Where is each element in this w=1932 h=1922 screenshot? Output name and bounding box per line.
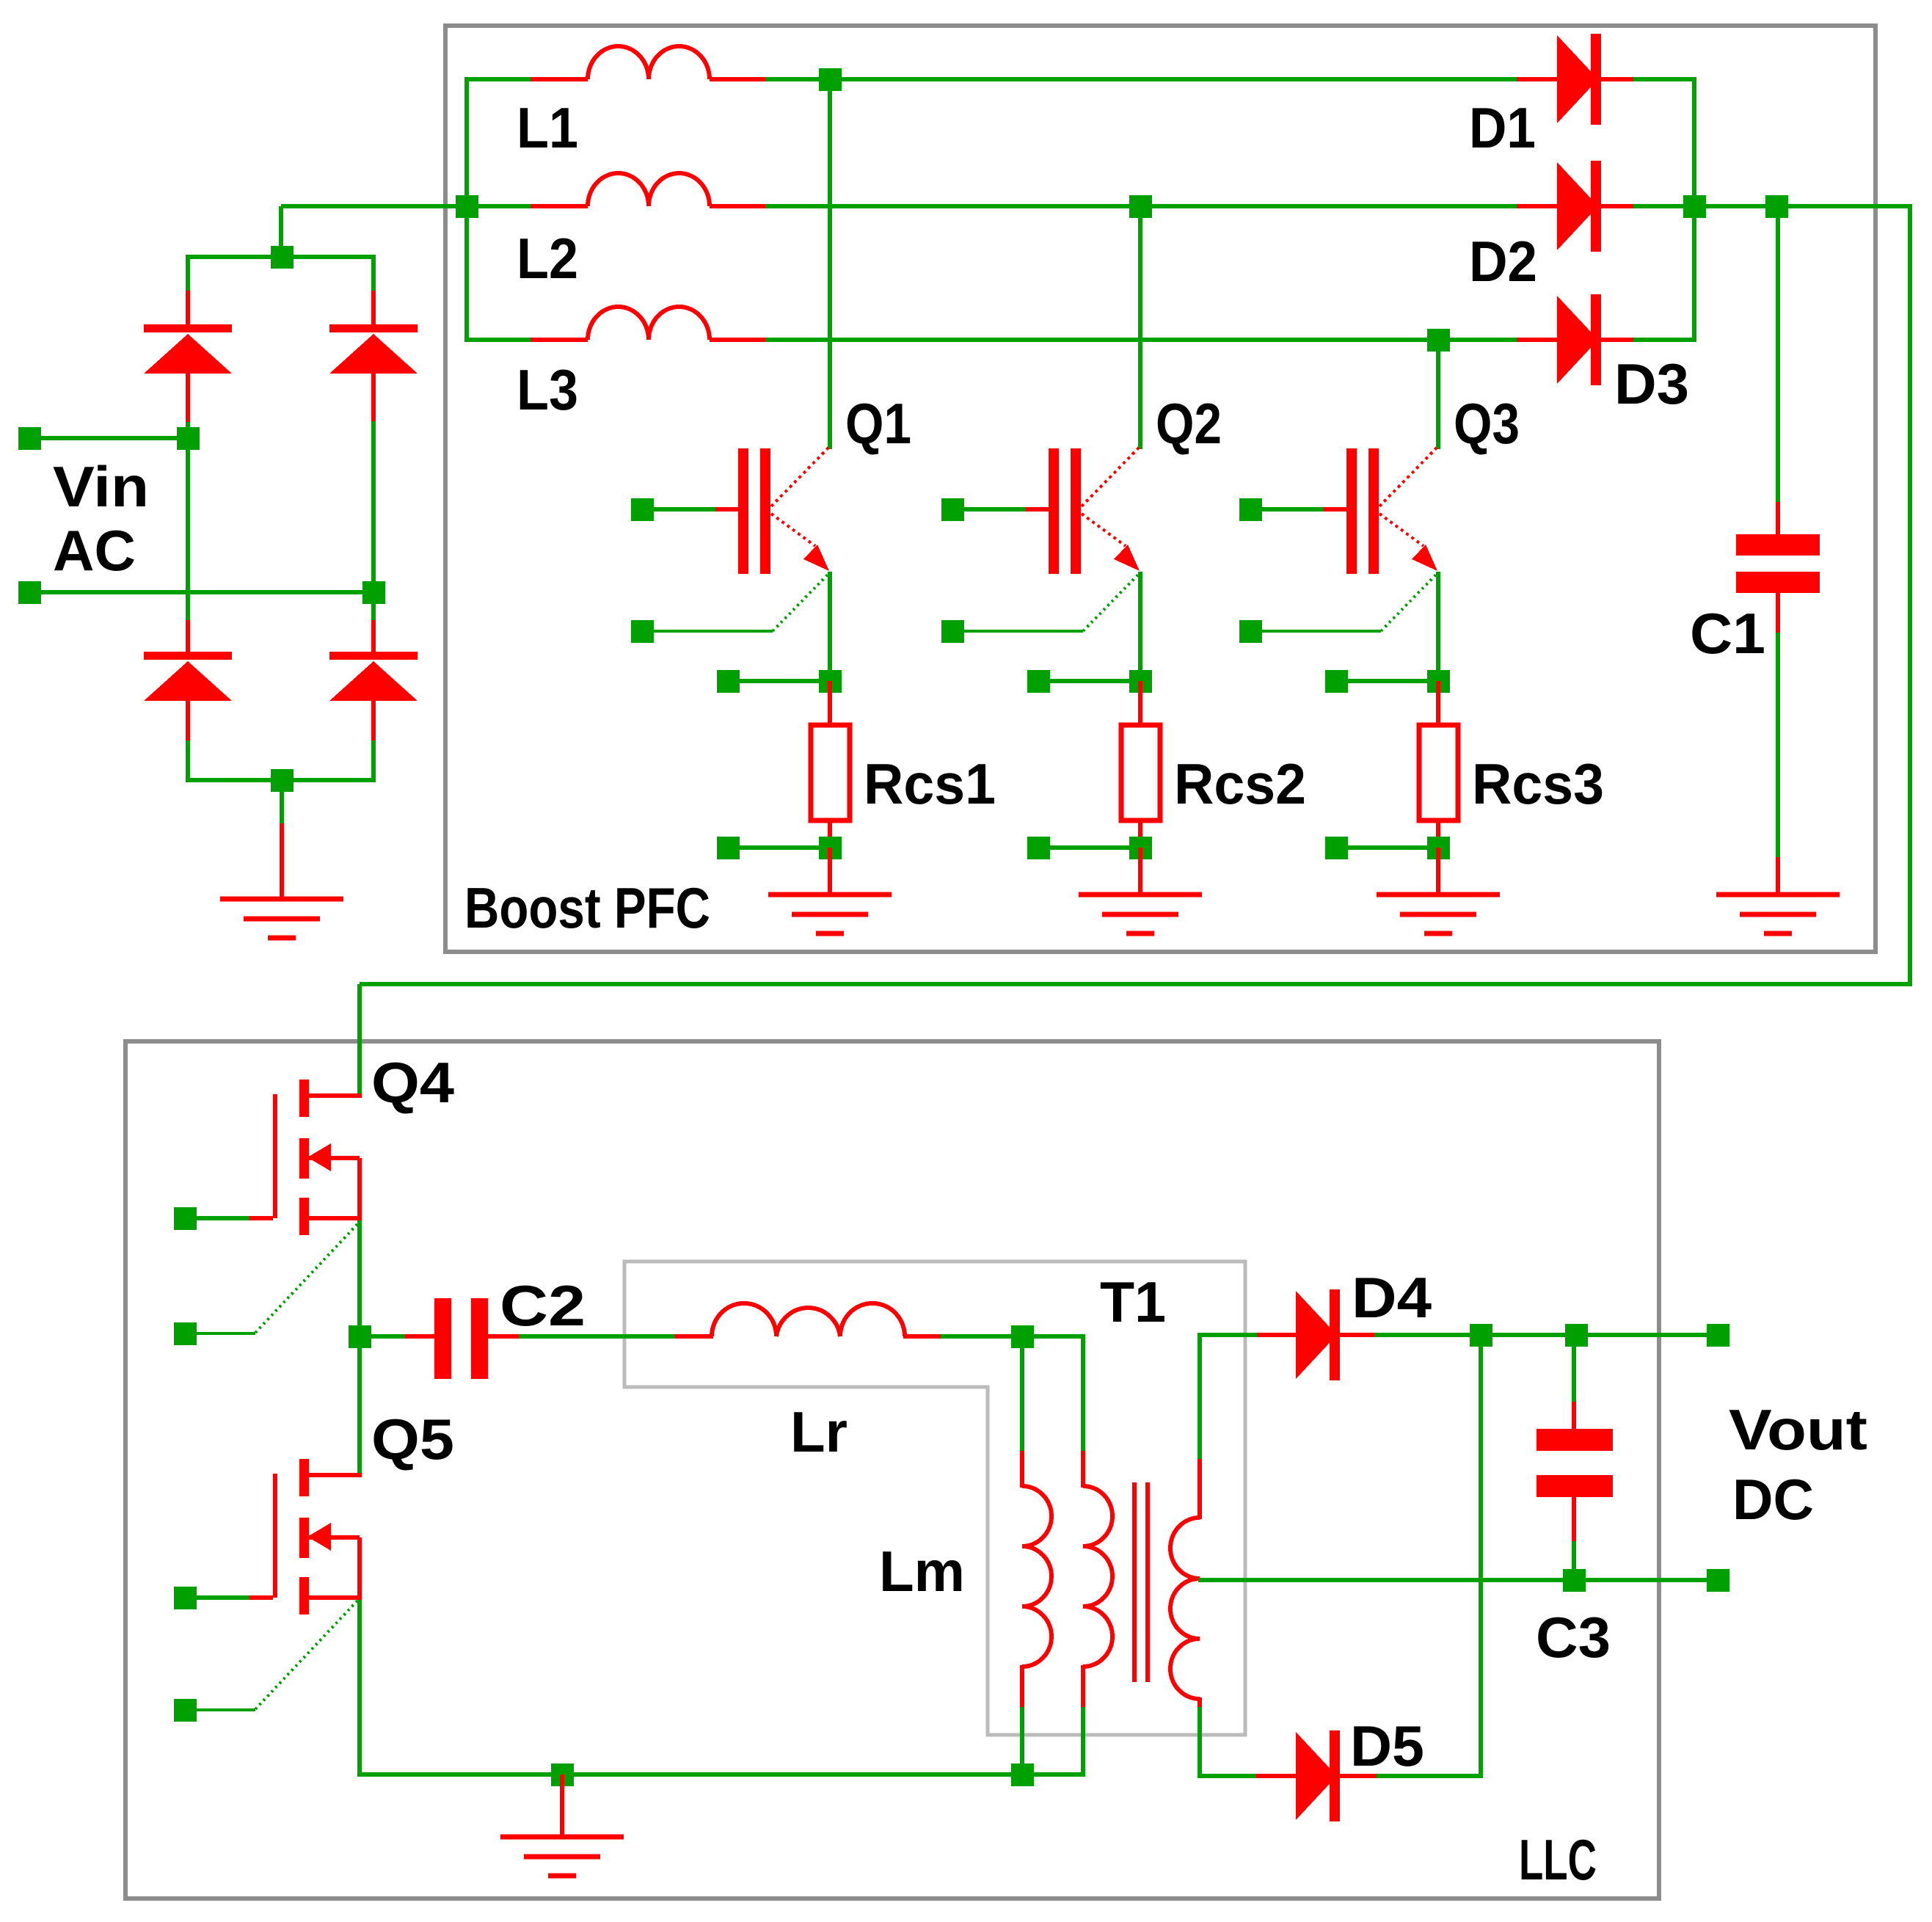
- svg-text:Boost PFC: Boost PFC: [464, 876, 710, 940]
- terminal Rcs2 sense bottom: [1027, 837, 1050, 859]
- node diode bus junction: [1683, 195, 1706, 218]
- wire secondary to D4: [1200, 1333, 1297, 1337]
- label Boost PFC: [464, 876, 710, 940]
- svg-text:Rcs3: Rcs3: [1472, 751, 1604, 816]
- wire D1 anode lead: [1517, 77, 1559, 81]
- label Rcs3: [1472, 751, 1604, 816]
- inductor Lr: [712, 1303, 905, 1336]
- transistor Q5 body lead: [308, 1537, 360, 1599]
- transistor Q4 body lead: [308, 1158, 360, 1220]
- wire C1 top lead: [1776, 206, 1780, 536]
- node LLC ground junction: [551, 1763, 574, 1786]
- wire L1 to collector junction: [710, 77, 1519, 81]
- transistor Q5 channel bars: [299, 1459, 309, 1615]
- node bridge top junction: [271, 246, 294, 269]
- capacitor C2: [434, 1298, 488, 1379]
- svg-text:Q4: Q4: [371, 1050, 454, 1115]
- transistor Q2 emitter arrow: [1114, 545, 1140, 571]
- label AC: [53, 518, 136, 583]
- svg-text:D3: D3: [1614, 352, 1689, 416]
- diode D1: [1557, 34, 1601, 125]
- diode D5: [1296, 1730, 1340, 1821]
- wire Rcs2 sense bottom: [1048, 845, 1140, 850]
- inductor L3: [588, 307, 710, 340]
- label Vin: [53, 454, 149, 519]
- inductor Lm: [1022, 1486, 1051, 1667]
- svg-text:Q5: Q5: [371, 1407, 454, 1471]
- label Q2: [1156, 391, 1222, 456]
- wire C2 right lead: [487, 1334, 679, 1339]
- inductor L1: [588, 46, 710, 79]
- wire bridge output to PFC: [281, 204, 470, 208]
- node resonant junction: [1011, 1325, 1034, 1348]
- wire D2 cathode lead: [1601, 204, 1696, 208]
- wire LLC bottom rail: [360, 1772, 1085, 1777]
- wire D1 cathode lead: [1601, 77, 1696, 81]
- wire PFC to LLC bus: [360, 982, 1912, 986]
- transistor Q1 emitter arrow: [803, 545, 829, 571]
- transistor Q3 emitter diagonal: [1379, 514, 1424, 546]
- label DC: [1732, 1467, 1814, 1532]
- wire L1 left lead: [466, 77, 588, 81]
- svg-text:C2: C2: [500, 1273, 586, 1338]
- wire D3 anode lead: [1517, 338, 1559, 342]
- wire bridge right mid lead: [371, 374, 376, 594]
- label L2: [517, 226, 578, 291]
- LLC stage frame box: [125, 1041, 1659, 1899]
- Boost PFC stage frame box: [445, 26, 1876, 952]
- wire Q5 source: [357, 1600, 362, 1777]
- wire Q2 emitter sense: [963, 574, 1139, 631]
- svg-text:L2: L2: [517, 226, 578, 291]
- wire Q4 source sense: [196, 1222, 360, 1333]
- wire Q3 collector: [1436, 340, 1440, 449]
- wire C3 bottom lead: [1572, 1497, 1576, 1582]
- terminal Q3 gate: [1239, 498, 1262, 521]
- label Lr: [790, 1399, 847, 1464]
- svg-text:C1: C1: [1690, 601, 1765, 666]
- wire Rcs1 bottom lead: [828, 820, 832, 849]
- node Q2 emitter junction: [1129, 670, 1152, 693]
- wire bridge riser: [279, 206, 283, 259]
- diode D3: [1557, 294, 1601, 385]
- node C1 top junction: [1765, 195, 1788, 218]
- label D2: [1469, 229, 1537, 294]
- label T1: [1100, 1270, 1166, 1334]
- svg-text:Rcs1: Rcs1: [864, 751, 996, 816]
- node C3 top junction: [1565, 1324, 1588, 1347]
- terminal Q1 emitter sense: [631, 620, 654, 643]
- wire bridge left bottom lead: [186, 701, 190, 782]
- label Lm: [879, 1539, 965, 1604]
- wire Q3 ground lead: [1436, 848, 1440, 897]
- transistor Q1 emitter diagonal: [771, 514, 815, 546]
- wire PFC input vertical: [464, 77, 469, 342]
- wire Rcs2 sense top: [1048, 679, 1140, 683]
- ground Q1: [768, 895, 892, 933]
- label Q4: [371, 1050, 454, 1115]
- wire Q3 gate lead: [1261, 507, 1346, 512]
- wire secondary tap rail: [1198, 1578, 1709, 1582]
- transistor Q5 gate line: [273, 1474, 277, 1598]
- wire bridge top rail: [188, 255, 373, 259]
- label Rcs2: [1174, 751, 1306, 816]
- wire Q4 source lead: [308, 1216, 362, 1220]
- diode bridge D-C: [144, 652, 232, 701]
- wire Q5 source lead: [308, 1595, 362, 1600]
- svg-text:Rcs2: Rcs2: [1174, 751, 1306, 816]
- terminal Q5 gate: [174, 1587, 197, 1609]
- ground C1: [1716, 895, 1840, 933]
- transistor Q2 collector diagonal: [1082, 446, 1140, 506]
- wire Q1 ground lead: [828, 848, 832, 897]
- wire D1 cathode drop: [1692, 77, 1696, 208]
- svg-text:DC: DC: [1732, 1467, 1814, 1532]
- transistor Q3 gate bar: [1346, 448, 1357, 574]
- wire Q4 drain drop: [357, 984, 362, 1093]
- label D3: [1614, 352, 1689, 416]
- transistor Q1 gate bar: [738, 448, 748, 574]
- wire PFC output rail: [1694, 204, 1912, 208]
- ground bridge: [220, 899, 343, 938]
- diode D2: [1557, 161, 1601, 252]
- transistor Q3 body bar: [1368, 448, 1379, 574]
- wire Rcs2 top lead: [1138, 681, 1142, 727]
- wire Q5 drain: [357, 1336, 362, 1473]
- terminal Q3 emitter sense: [1239, 620, 1262, 643]
- wire T1 secondary bottom lead: [1198, 1697, 1202, 1778]
- wire PFC output down: [1908, 204, 1912, 986]
- label L3: [517, 357, 578, 422]
- transistor Q3 emitter arrow: [1412, 545, 1437, 571]
- wire Rcs1 top lead: [828, 681, 832, 727]
- wire T1 primary bottom lead: [1081, 1665, 1085, 1777]
- wire Rcs3 bottom lead: [1436, 820, 1440, 849]
- node Rcs3 bottom junction: [1427, 837, 1450, 859]
- resistor Rcs1: [811, 725, 850, 820]
- wire Rcs1 sense top: [737, 679, 830, 683]
- label L1: [517, 95, 578, 160]
- transistor Q3 collector diagonal: [1379, 446, 1438, 506]
- wire Vin phase to bridge: [40, 436, 188, 440]
- wire Q1 emitter sense: [653, 574, 828, 631]
- svg-text:L3: L3: [517, 357, 578, 422]
- label Rcs1: [864, 751, 996, 816]
- svg-text:AC: AC: [53, 518, 136, 583]
- ground Q3: [1377, 895, 1500, 933]
- wire Lm top lead: [1020, 1336, 1024, 1488]
- wire Q2 emitter: [1138, 572, 1142, 683]
- wire Q4 source: [357, 1220, 362, 1339]
- node Rcs1 bottom junction: [819, 837, 842, 859]
- transistor Q4 channel bars: [299, 1080, 309, 1235]
- terminal Q5 source sense: [174, 1699, 197, 1722]
- terminal Vout positive: [1707, 1324, 1729, 1347]
- wire Q5 source sense: [196, 1598, 360, 1710]
- wire L3 left lead: [466, 338, 588, 342]
- wire Q4 gate wire: [196, 1216, 273, 1220]
- terminal Vout negative: [1707, 1569, 1729, 1592]
- inductor L2: [588, 173, 710, 206]
- wire Rcs3 sense bottom: [1346, 845, 1438, 850]
- label LLC: [1519, 1827, 1597, 1892]
- wire Lr right lead: [903, 1334, 1085, 1339]
- resistor Rcs3: [1419, 725, 1458, 820]
- wire Lr left lead: [675, 1334, 713, 1339]
- wire L2 left lead: [466, 204, 588, 208]
- label D4: [1352, 1265, 1432, 1330]
- wire bridge right lower lead: [371, 592, 376, 653]
- wire Q2 gate lead: [963, 507, 1049, 512]
- svg-text:D5: D5: [1350, 1714, 1424, 1778]
- capacitor C3: [1537, 1429, 1613, 1497]
- svg-text:Vout: Vout: [1729, 1397, 1867, 1462]
- label D1: [1469, 95, 1536, 160]
- wire bridge left mid lead: [186, 374, 190, 441]
- wire T1 primary top lead: [1081, 1334, 1085, 1488]
- svg-text:Q1: Q1: [845, 391, 911, 456]
- wire Q2 ground lead: [1138, 848, 1142, 897]
- wire D5 to output riser: [1479, 1335, 1483, 1776]
- label C2: [500, 1273, 586, 1338]
- wire D5 cathode: [1340, 1774, 1483, 1778]
- coil T1 secondary lower: [1170, 1579, 1200, 1699]
- wire Rcs1 sense bottom: [737, 845, 830, 850]
- node L3 collector junction: [1427, 329, 1450, 352]
- node half-bridge junction: [349, 1325, 371, 1348]
- transistor Q1 collector diagonal: [771, 446, 830, 506]
- wire bridge left upper lead: [186, 255, 190, 326]
- node D4 output junction: [1470, 1324, 1492, 1347]
- wire D3 cathode lead: [1601, 338, 1696, 342]
- node PFC input junction: [456, 195, 478, 218]
- terminal Rcs3 sense bottom: [1325, 837, 1348, 859]
- diode bridge D-A: [144, 324, 232, 374]
- svg-text:LLC: LLC: [1519, 1827, 1597, 1892]
- label D5: [1350, 1714, 1424, 1778]
- label Vout: [1729, 1397, 1867, 1462]
- label Q5: [371, 1407, 454, 1471]
- svg-text:Q3: Q3: [1454, 391, 1520, 456]
- diode D4: [1296, 1289, 1340, 1380]
- terminal Vin neutral: [18, 581, 41, 604]
- terminal Vin phase: [18, 427, 41, 450]
- wire secondary to D5: [1200, 1774, 1297, 1778]
- wire Q2 collector: [1138, 206, 1142, 449]
- label Q1: [845, 391, 911, 456]
- wire Rcs3 sense top: [1346, 679, 1438, 683]
- wire D3 cathode rise: [1692, 206, 1696, 342]
- wire Lm bottom lead: [1020, 1665, 1024, 1777]
- transistor Q2 gate bar: [1049, 448, 1059, 574]
- svg-text:Lr: Lr: [790, 1399, 847, 1464]
- wire bridge ground lead: [280, 780, 284, 901]
- wire Vin neutral to bridge: [40, 590, 371, 594]
- wire C3 top lead: [1572, 1335, 1576, 1430]
- core T1: [1132, 1482, 1150, 1682]
- capacitor C1: [1736, 534, 1820, 593]
- node bridge right junction: [362, 581, 385, 604]
- wire C1 bottom lead: [1776, 593, 1780, 897]
- wire Q1 collector: [828, 79, 832, 449]
- wire Q5 gate wire: [196, 1595, 273, 1600]
- wire LLC ground lead: [560, 1774, 564, 1839]
- svg-text:Lm: Lm: [879, 1539, 965, 1604]
- terminal Rcs1 sense bottom: [717, 837, 740, 859]
- terminal Rcs3 sense top: [1325, 670, 1348, 693]
- wire L3 to collector junction: [710, 338, 1519, 342]
- ground Q2: [1079, 895, 1202, 933]
- wire Q3 emitter: [1436, 572, 1440, 683]
- svg-text:D4: D4: [1352, 1265, 1432, 1330]
- diode bridge D-B: [329, 324, 418, 374]
- svg-text:T1: T1: [1100, 1270, 1166, 1334]
- wire D4 cathode: [1340, 1333, 1709, 1337]
- diode bridge D-D: [329, 652, 418, 701]
- wire bridge right bottom lead: [371, 701, 376, 782]
- terminal Q4 gate: [174, 1207, 197, 1230]
- wire L2 to collector junction: [710, 204, 1519, 208]
- transistor Q1 body bar: [760, 448, 770, 574]
- terminal Q2 emitter sense: [941, 620, 964, 643]
- transistor Q2 body bar: [1071, 448, 1081, 574]
- label Q3: [1454, 391, 1520, 456]
- svg-text:Vin: Vin: [53, 454, 149, 519]
- terminal Rcs1 sense top: [717, 670, 740, 693]
- svg-text:L1: L1: [517, 95, 578, 160]
- wire Q1 emitter: [828, 572, 832, 683]
- terminal Rcs2 sense top: [1027, 670, 1050, 693]
- node bridge left junction: [177, 427, 200, 450]
- resistor Rcs2: [1121, 725, 1160, 820]
- wire Rcs2 bottom lead: [1138, 820, 1142, 849]
- node Q3 emitter junction: [1427, 670, 1450, 693]
- svg-text:Q2: Q2: [1156, 391, 1222, 456]
- transistor Q5 body arrow: [307, 1523, 331, 1551]
- terminal Q2 gate: [941, 498, 964, 521]
- svg-text:D2: D2: [1469, 229, 1537, 294]
- node Q1 emitter junction: [819, 670, 842, 693]
- terminal Q4 source sense: [174, 1322, 197, 1345]
- wire Q1 gate lead: [653, 507, 738, 512]
- transistor Q2 emitter diagonal: [1082, 514, 1126, 546]
- wire Q3 emitter sense: [1261, 574, 1437, 631]
- wire bridge right upper lead: [371, 255, 376, 326]
- transformer T1 frame box: [624, 1262, 1245, 1735]
- node L1 collector junction: [819, 68, 842, 91]
- wire T1 secondary top lead: [1198, 1333, 1202, 1519]
- svg-text:C3: C3: [1536, 1605, 1611, 1670]
- node Rcs2 bottom junction: [1129, 837, 1152, 859]
- wire C2 left lead: [360, 1334, 437, 1339]
- coil T1 secondary upper: [1170, 1518, 1200, 1579]
- node bridge bottom junction: [271, 769, 294, 792]
- wire Rcs3 top lead: [1436, 681, 1440, 727]
- svg-text:D1: D1: [1469, 95, 1536, 160]
- coil T1 primary: [1083, 1486, 1112, 1667]
- transistor Q4 gate line: [273, 1094, 277, 1218]
- ground LLC: [500, 1837, 624, 1876]
- wire D2 anode lead: [1517, 204, 1559, 208]
- wire bridge bottom rail: [188, 778, 373, 782]
- label C3: [1536, 1605, 1611, 1670]
- wire Q5 drain lead: [308, 1473, 362, 1477]
- node Lm bottom junction: [1011, 1763, 1034, 1786]
- label C1: [1690, 601, 1765, 666]
- terminal Q1 gate: [631, 498, 654, 521]
- wire bridge left lower lead: [186, 438, 190, 653]
- transistor Q4 body arrow: [307, 1143, 331, 1171]
- node L2 collector junction: [1129, 195, 1152, 218]
- wire Q4 drain lead: [308, 1093, 362, 1098]
- node C3 bottom junction: [1563, 1569, 1586, 1592]
